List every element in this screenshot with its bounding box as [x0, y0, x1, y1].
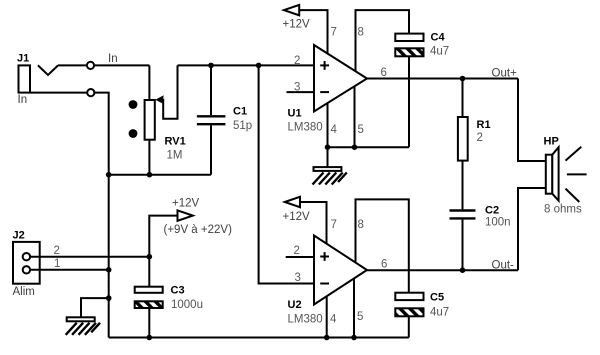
- wire ground tap: [81, 298, 109, 317]
- capacitor C5: [395, 292, 449, 319]
- wire In top to RV1: [94, 64, 149, 66]
- svg-text:J1: J1: [17, 53, 29, 65]
- power +12V arrow U2: [285, 197, 300, 207]
- svg-text:C3: C3: [171, 285, 185, 297]
- node In bottom terminal: [87, 89, 94, 96]
- svg-text:C2: C2: [485, 205, 499, 217]
- svg-text:J2: J2: [13, 230, 25, 242]
- node rail C3 junction: [147, 335, 153, 341]
- U2 pin 2 stub: [286, 256, 314, 258]
- wire C5 to bottom rail: [408, 316, 410, 337]
- resistor R1: [458, 79, 491, 161]
- wire In bottom to ground column: [94, 93, 108, 175]
- svg-text:HP: HP: [544, 136, 559, 148]
- wire U1 output to Out+: [367, 78, 518, 80]
- op-amp U1: [288, 45, 368, 134]
- wire +12V branch: [149, 216, 177, 287]
- svg-text:In: In: [108, 53, 118, 65]
- svg-text:Out-: Out-: [492, 260, 515, 272]
- svg-text:3: 3: [294, 82, 300, 94]
- capacitor C1: [197, 65, 252, 174]
- U1 pin 7 wire: [299, 10, 327, 54]
- wire RV1 bottom: [148, 140, 150, 175]
- U2 pin 8 wire: [356, 199, 409, 292]
- node In top terminal: [87, 62, 94, 69]
- svg-text:Alim: Alim: [13, 286, 35, 298]
- U2 pin 7 wire: [300, 202, 327, 244]
- capacitor C3: [135, 285, 203, 312]
- wire ground column middle: [108, 175, 110, 270]
- RV1 terminal dot upper: [129, 100, 138, 109]
- node U1 pin4 junction: [325, 144, 331, 150]
- ground bottom left: [66, 317, 100, 335]
- wire C3 to bottom rail: [148, 308, 150, 338]
- ground below U1: [313, 147, 347, 184]
- svg-text:C5: C5: [430, 292, 444, 304]
- node rail U2 pin5: [351, 335, 357, 341]
- wire J2 pin1 to ground column: [30, 269, 109, 271]
- svg-text:7: 7: [331, 27, 337, 39]
- svg-text:RV1: RV1: [165, 136, 186, 148]
- svg-text:Out+: Out+: [492, 68, 518, 80]
- wire speaker to Out-: [518, 188, 546, 270]
- svg-text:4: 4: [331, 124, 338, 136]
- svg-text:C1: C1: [233, 106, 247, 118]
- connector J1: [17, 53, 30, 107]
- speaker ray upper: [566, 147, 582, 161]
- U1 pin 8 wire: [356, 10, 410, 71]
- potentiometer RV1: [145, 100, 186, 162]
- svg-text:1M: 1M: [167, 150, 183, 162]
- wire J1 tip to terminal: [58, 64, 87, 66]
- capacitor C4: [395, 32, 449, 58]
- node Out- junction: [460, 267, 466, 273]
- speaker ray lower: [566, 189, 580, 202]
- svg-text:2: 2: [477, 132, 483, 144]
- svg-text:6: 6: [381, 67, 387, 79]
- svg-text:8: 8: [358, 27, 364, 39]
- svg-text:2: 2: [294, 245, 300, 257]
- svg-text:+12V: +12V: [283, 211, 311, 223]
- svg-text:LM380: LM380: [288, 122, 323, 134]
- wire U1 ground bus: [328, 146, 410, 148]
- svg-text:4u7: 4u7: [430, 46, 449, 58]
- svg-text:2: 2: [294, 55, 300, 67]
- svg-text:+12V: +12V: [172, 198, 200, 210]
- svg-text:LM380: LM380: [288, 314, 323, 326]
- U1 pin 5 wire: [354, 86, 356, 147]
- svg-text:(+9V à +22V): (+9V à +22V): [164, 224, 233, 236]
- svg-text:6: 6: [381, 259, 387, 271]
- wire ground column lower: [108, 270, 110, 338]
- svg-text:R1: R1: [477, 119, 491, 131]
- svg-text:U1: U1: [288, 108, 302, 120]
- wire Out+ to speaker: [518, 79, 546, 162]
- svg-text:1000u: 1000u: [171, 299, 203, 311]
- U2 pin 4 wire: [326, 296, 328, 337]
- J1 switch contact: [38, 65, 58, 75]
- RV1 wiper arrow: [155, 95, 163, 103]
- wire signal down to U2: [259, 65, 314, 283]
- wire bottom rail: [109, 337, 409, 339]
- node ground tap junction: [106, 295, 112, 301]
- svg-text:5: 5: [358, 124, 364, 136]
- svg-text:4u7: 4u7: [430, 307, 449, 319]
- node Out+ junction: [460, 76, 466, 82]
- power +12V arrow J2: [178, 210, 193, 220]
- wire RV1 wiper to signal: [163, 65, 177, 118]
- speaker ray middle: [567, 173, 587, 175]
- power +12V arrow U1: [284, 5, 299, 15]
- node rail-RV1 junction: [147, 172, 153, 178]
- capacitor C2: [450, 161, 511, 271]
- node J2 pin1 junction: [106, 267, 112, 273]
- connector J2: [13, 230, 40, 299]
- svg-text:3: 3: [295, 272, 301, 284]
- node rail U2 pin4: [324, 335, 330, 341]
- svg-text:5: 5: [357, 311, 363, 323]
- wire J2 pin2 to +12V column: [30, 256, 149, 258]
- U1 pin 3 stub: [287, 91, 315, 93]
- svg-text:4: 4: [330, 314, 337, 326]
- speaker HP: [544, 136, 582, 216]
- node rail-column junction: [106, 172, 112, 178]
- wire J1 sleeve: [30, 92, 87, 94]
- node +12V junction: [147, 254, 153, 260]
- svg-text:100n: 100n: [485, 217, 511, 229]
- U1 pin 4 wire: [327, 103, 329, 147]
- wire signal to U1 pin2: [178, 64, 315, 66]
- RV1 terminal dot lower: [129, 129, 138, 138]
- wire into RV1 top: [148, 65, 150, 100]
- svg-text:8 ohms: 8 ohms: [544, 204, 582, 216]
- svg-text:U2: U2: [288, 299, 302, 311]
- svg-text:In: In: [18, 94, 28, 106]
- svg-text:+12V: +12V: [283, 19, 311, 31]
- svg-text:C4: C4: [431, 32, 446, 44]
- node signal junction: [256, 63, 262, 69]
- U2 pin 5 wire: [353, 279, 355, 338]
- wire C4 to ground rail: [408, 56, 410, 147]
- wire U2 output Out-: [367, 269, 518, 271]
- node C1 top junction: [208, 63, 214, 69]
- svg-text:2: 2: [54, 245, 60, 257]
- node U1 pin5 junction: [352, 144, 358, 150]
- svg-text:51p: 51p: [233, 120, 252, 132]
- svg-text:7: 7: [331, 219, 337, 231]
- wire middle ground rail: [109, 174, 211, 176]
- op-amp U2: [288, 236, 368, 326]
- svg-text:8: 8: [358, 219, 364, 231]
- svg-text:1: 1: [54, 258, 60, 270]
